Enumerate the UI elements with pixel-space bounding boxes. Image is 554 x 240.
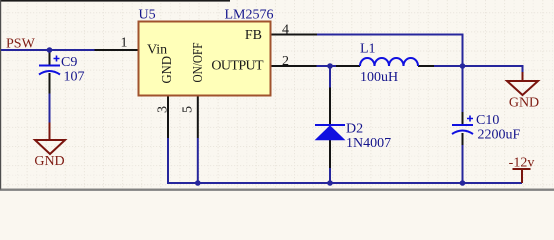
svg-text:2: 2 [282,54,289,69]
svg-text:PSW: PSW [6,37,36,52]
svg-text:ON/OFF: ON/OFF [191,42,206,82]
svg-text:LM2576: LM2576 [225,8,274,23]
svg-text:1: 1 [121,36,128,51]
svg-text:L1: L1 [360,42,376,57]
svg-text:5: 5 [181,106,196,113]
svg-text:-12v: -12v [509,156,535,171]
svg-text:OUTPUT: OUTPUT [211,58,264,73]
svg-text:4: 4 [282,23,289,38]
svg-text:C9: C9 [61,55,77,70]
svg-text:3: 3 [156,106,171,113]
svg-text:1N4007: 1N4007 [346,136,391,151]
svg-text:C10: C10 [476,113,499,128]
svg-text:GND: GND [509,95,539,110]
svg-text:U5: U5 [139,8,156,23]
svg-text:D2: D2 [346,122,363,137]
svg-text:Vin: Vin [147,43,167,58]
svg-text:FB: FB [245,28,262,43]
svg-text:107: 107 [64,70,85,85]
svg-text:100uH: 100uH [360,70,398,85]
svg-text:GND: GND [34,154,64,169]
svg-text:GND: GND [160,56,175,84]
svg-text:2200uF: 2200uF [478,128,521,143]
